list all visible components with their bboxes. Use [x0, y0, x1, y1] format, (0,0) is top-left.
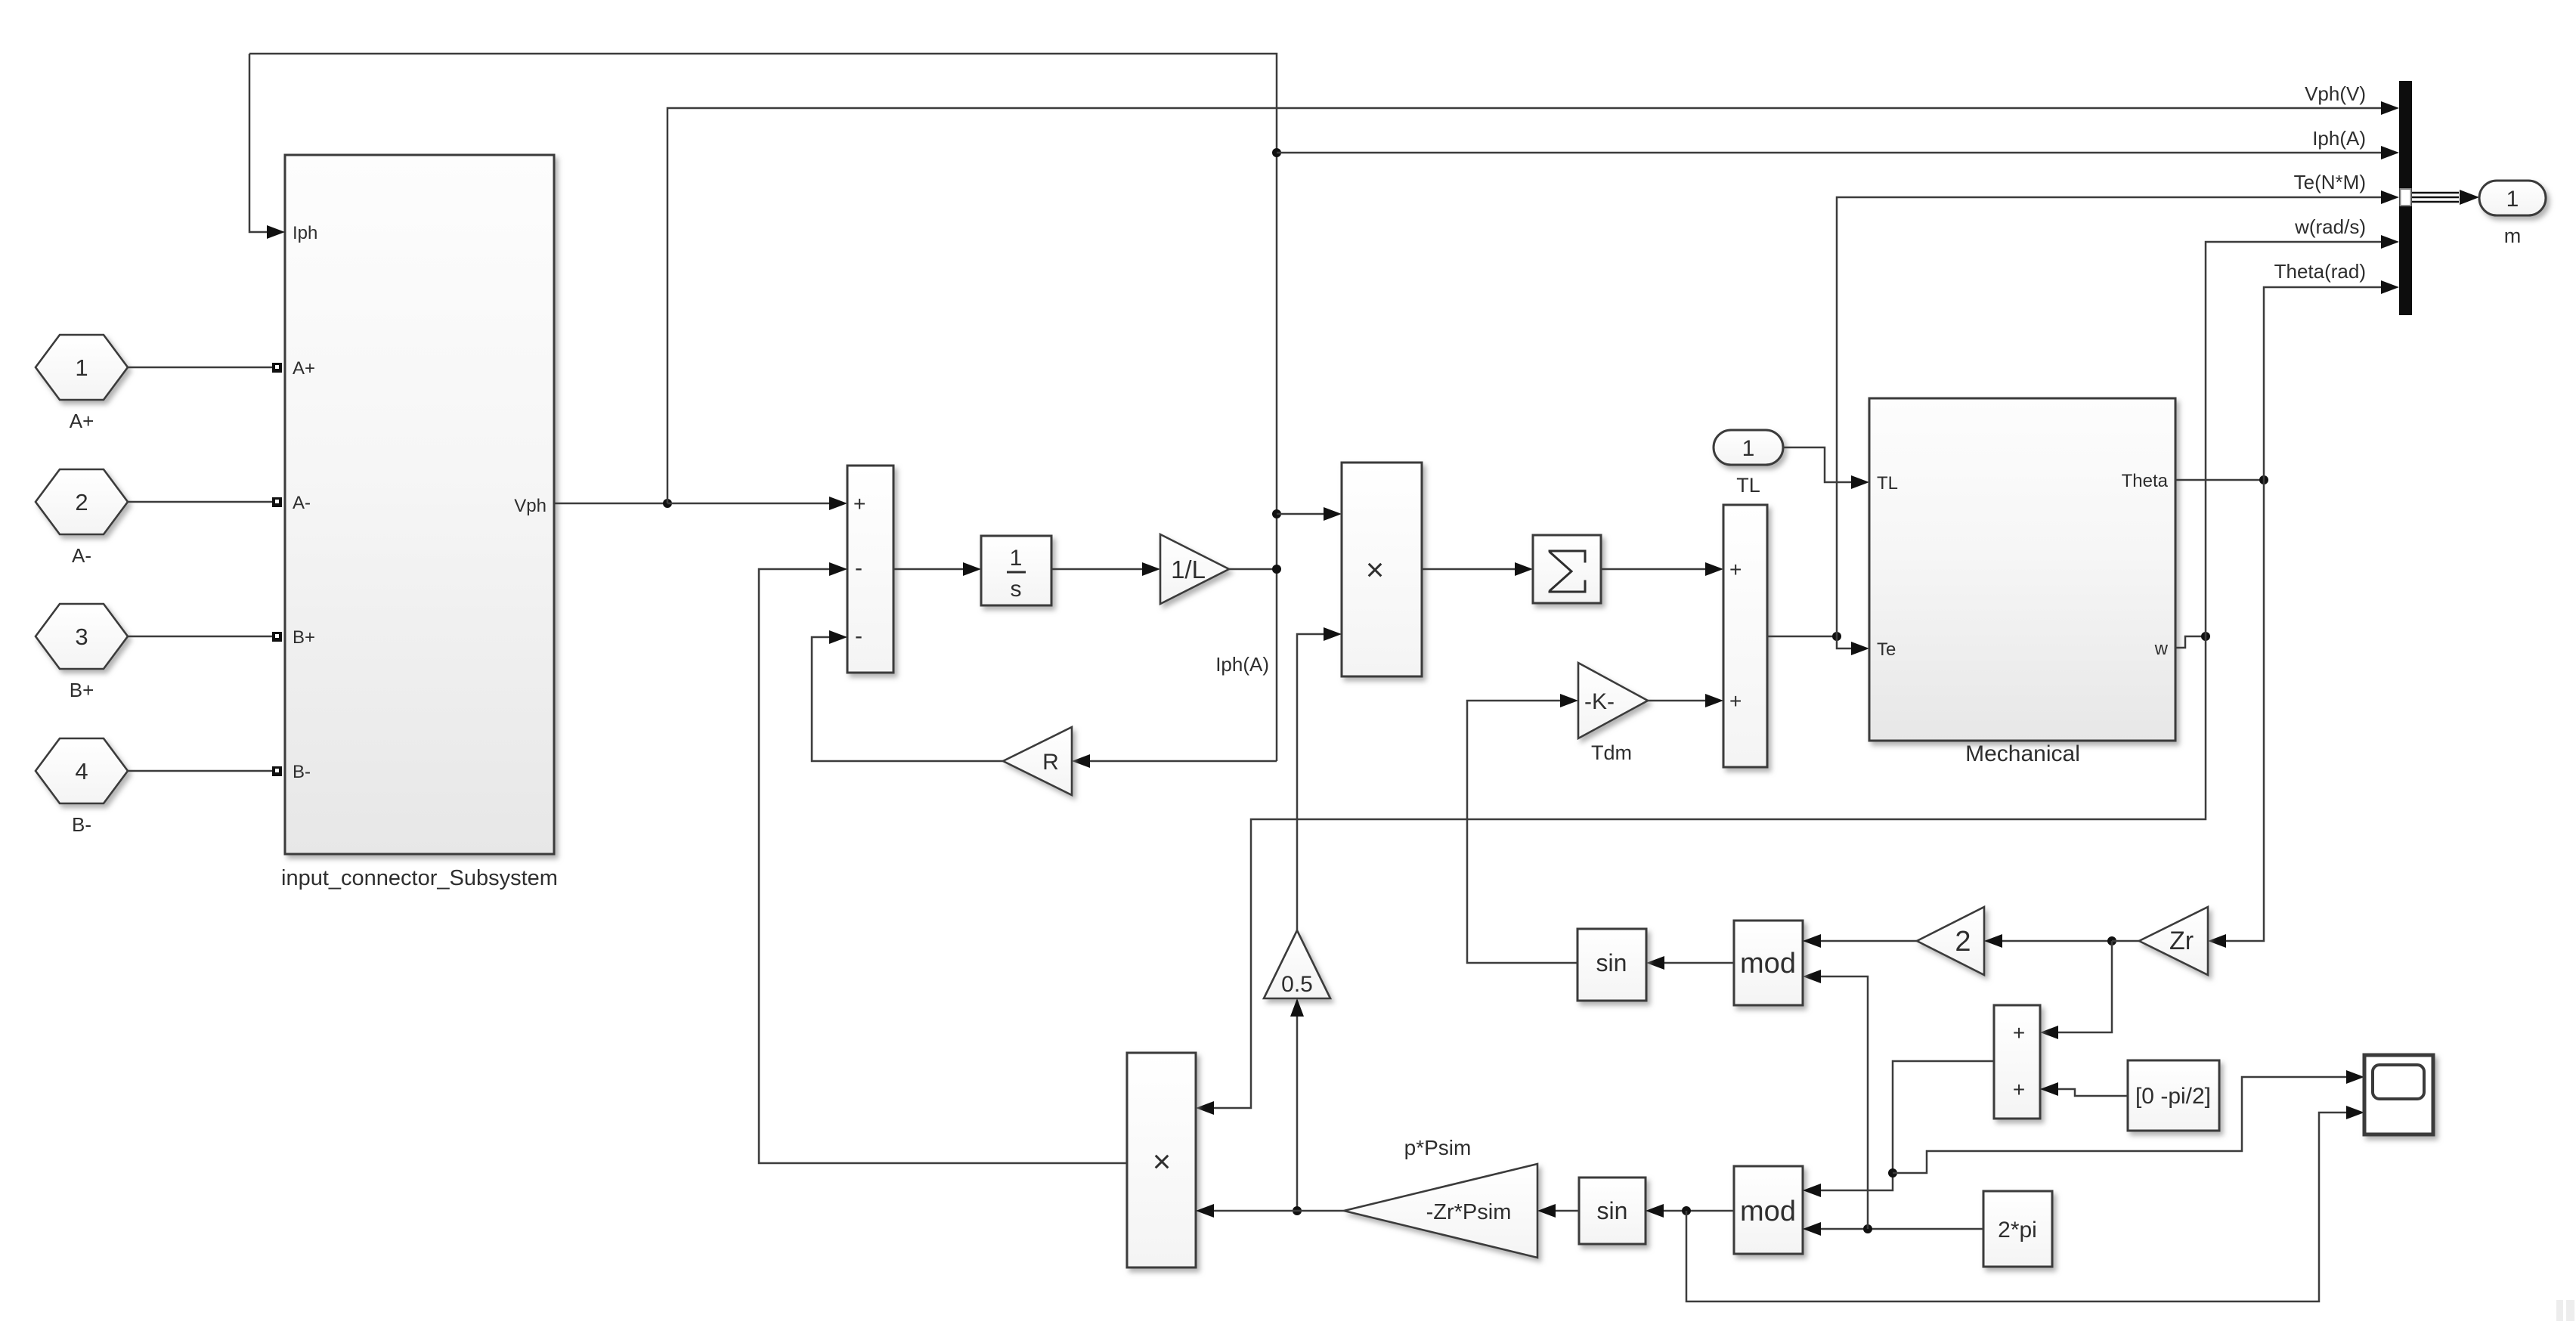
- svg-text:B+: B+: [70, 679, 94, 701]
- wire Product2 output to Sum1 minus input: [759, 569, 1127, 1163]
- node Iph(A) branch to mux: [1272, 148, 1281, 157]
- svg-text:Tdm: Tdm: [1591, 741, 1632, 764]
- wire Vph to sum1 + input: [667, 503, 829, 505]
- svg-text:w(rad/s): w(rad/s): [2294, 215, 2366, 238]
- wire into 0.5 gain from below: [1296, 1017, 1299, 1211]
- wire Iph feedback into subsystem: [249, 54, 268, 232]
- svg-text:Mechanical: Mechanical: [1965, 741, 2080, 766]
- gain 2 (left pointing): [1917, 907, 1984, 975]
- svg-text:input_connector_Subsystem: input_connector_Subsystem: [281, 866, 558, 890]
- constant 2*pi: [1983, 1191, 2052, 1267]
- port marker B-: [272, 766, 282, 776]
- wire Theta down to gain Zr: [2226, 480, 2264, 941]
- wire w down and left to Product2 input1: [1214, 636, 2206, 1108]
- svg-text:TL: TL: [1736, 474, 1760, 497]
- svg-text:+: +: [2013, 1021, 2025, 1044]
- sum block Sum1 (+ - -): [847, 466, 893, 673]
- gain -K- (Tdm): [1578, 663, 1648, 738]
- svg-text:R: R: [1042, 750, 1059, 775]
- node branch to product1 input1: [1272, 509, 1281, 518]
- wire branch to scope input1: [1893, 1077, 2346, 1173]
- svg-text:1: 1: [2506, 187, 2519, 212]
- product block Product2: [1127, 1053, 1196, 1267]
- svg-text:3: 3: [75, 624, 88, 650]
- wire Te up to mux Te(N*M): [1837, 197, 2382, 636]
- node sin2 input junction: [1682, 1206, 1691, 1215]
- node sum3 output branch: [1888, 1168, 1897, 1178]
- sum block Sigma: [1533, 535, 1601, 603]
- wire Te into Mechanical: [1837, 636, 1851, 648]
- svg-text:sin: sin: [1597, 1197, 1628, 1224]
- svg-text:0.5: 0.5: [1281, 972, 1313, 997]
- svg-text:-: -: [855, 624, 862, 648]
- wire 2*pi output to mod inputs: [1821, 1228, 1983, 1230]
- svg-text:+: +: [1729, 689, 1742, 713]
- node Zr output junction: [2107, 936, 2116, 945]
- inport 3 (B+) hexagon: [36, 604, 128, 669]
- subsystem input_connector_Subsystem: [285, 155, 554, 854]
- node 1/L output junction: [1272, 565, 1281, 574]
- gain Zr (left pointing): [2139, 907, 2208, 975]
- svg-text:A-: A-: [293, 493, 311, 513]
- svg-text:A+: A+: [293, 358, 315, 379]
- svg-text:w: w: [2154, 639, 2169, 659]
- mod block mod1: [1734, 921, 1803, 1005]
- wire gain R output to Sum1 minus input: [812, 637, 1003, 761]
- svg-text:1: 1: [75, 354, 88, 381]
- svg-text:-: -: [855, 555, 862, 580]
- gain 1/L: [1160, 534, 1229, 604]
- wire Zr junction to gain 2: [2002, 940, 2112, 942]
- wire integrator to gain 1/L: [1051, 568, 1142, 571]
- node Vph junction: [663, 499, 672, 508]
- svg-text:Iph: Iph: [293, 223, 317, 243]
- inport 1 (A+) hexagon: [36, 335, 128, 400]
- wire Product1 output to Sigma: [1422, 568, 1515, 571]
- svg-text:2: 2: [75, 489, 88, 515]
- sin block (top): [1577, 929, 1646, 1001]
- svg-text:-K-: -K-: [1584, 689, 1615, 714]
- svg-text:B-: B-: [293, 762, 311, 782]
- wire junction down to sum3 input1: [2058, 941, 2112, 1032]
- svg-text:+: +: [1729, 558, 1742, 581]
- wire mux output bus: [2412, 192, 2459, 194]
- watermark bars bottom-right: [2556, 1300, 2563, 1321]
- mux port marker: [2401, 189, 2411, 206]
- sum block Sum2 (+ +): [1723, 505, 1767, 767]
- wire w up to mux w(rad/s): [2206, 242, 2382, 636]
- wire TL to Mechanical: [1783, 447, 1851, 482]
- svg-text:[0 -pi/2]: [0 -pi/2]: [2135, 1084, 2211, 1109]
- wire sum3 output to mod2 input1 and scope: [1821, 1061, 1994, 1190]
- svg-text:×: ×: [1366, 552, 1385, 587]
- wire inport3 to B+ port: [128, 636, 273, 638]
- svg-text:Te: Te: [1877, 639, 1896, 660]
- wire Sum1 output to integrator: [893, 568, 963, 571]
- wire inport1 to A+ port: [128, 367, 273, 369]
- svg-text:Iph(A): Iph(A): [2312, 127, 2366, 150]
- svg-text:A+: A+: [70, 410, 94, 432]
- svg-text:1: 1: [1742, 436, 1755, 461]
- wire inport4 to B- port: [128, 770, 273, 772]
- wire feedback to gain R: [1090, 760, 1277, 763]
- svg-text:mod: mod: [1740, 948, 1796, 979]
- svg-text:×: ×: [1153, 1143, 1172, 1179]
- svg-text:+: +: [853, 492, 865, 515]
- integrator 1/s: [981, 536, 1051, 605]
- wire w output jog to junction: [2175, 636, 2206, 648]
- inport 2 (A-) hexagon: [36, 469, 128, 534]
- wire Iph feedback top run: [249, 54, 1277, 761]
- mux block: [2399, 81, 2412, 315]
- inport TL oval: [1714, 430, 1783, 465]
- svg-text:sin: sin: [1596, 949, 1627, 976]
- wire Theta output to junction: [2175, 479, 2264, 481]
- svg-text:4: 4: [75, 758, 88, 785]
- gain R (left pointing): [1003, 727, 1072, 795]
- wire -K- output to Sum2 + input: [1648, 700, 1705, 702]
- svg-text:1: 1: [1010, 546, 1023, 571]
- wire to product1 input1: [1277, 513, 1324, 515]
- wire 2*pi up to mod1 input2: [1821, 976, 1868, 1229]
- node w junction: [2201, 632, 2210, 641]
- wire Iph(A) to mux: [1277, 152, 2382, 154]
- outport 1 (m) oval: [2479, 181, 2546, 215]
- svg-text:Vph: Vph: [514, 496, 546, 516]
- svg-text:B+: B+: [293, 627, 315, 648]
- sin block (bottom): [1579, 1178, 1646, 1244]
- svg-text:+: +: [2013, 1078, 2025, 1101]
- wire sin2 output to -Zr*Psim: [1556, 1210, 1579, 1212]
- svg-text:1/L: 1/L: [1171, 555, 1206, 583]
- product block Product1: [1342, 463, 1422, 676]
- node Te junction: [1832, 632, 1841, 641]
- svg-text:2*pi: 2*pi: [1998, 1218, 2037, 1243]
- svg-text:s: s: [1011, 577, 1022, 602]
- node Theta junction: [2259, 475, 2268, 484]
- sum block Sum3 (+ +) flipped: [1994, 1005, 2040, 1119]
- svg-text:A-: A-: [72, 544, 91, 567]
- wire gain 2 output to mod1 input1: [1821, 940, 1917, 942]
- svg-text:m: m: [2504, 224, 2522, 247]
- port marker B+: [272, 632, 282, 642]
- gain -Zr*Psim (left pointing): [1344, 1164, 1537, 1258]
- wire sin1 output to gain -K- input: [1467, 701, 1577, 963]
- wire Vph output to junction: [554, 503, 667, 505]
- svg-text:2: 2: [1955, 926, 1971, 958]
- svg-text:Zr: Zr: [2169, 927, 2194, 955]
- svg-text:p*Psim: p*Psim: [1404, 1136, 1472, 1159]
- svg-text:TL: TL: [1877, 473, 1898, 494]
- wire Theta up to mux Theta(rad): [2264, 287, 2382, 480]
- constant [0 -pi/2]: [2128, 1060, 2219, 1131]
- port marker A+: [272, 363, 282, 373]
- inport 4 (B-) hexagon: [36, 738, 128, 803]
- svg-text:-Zr*Psim: -Zr*Psim: [1426, 1200, 1512, 1224]
- wire inport2 to A- port: [128, 501, 273, 503]
- svg-text:Theta: Theta: [2122, 471, 2169, 491]
- node 2*pi branch junction: [1863, 1224, 1872, 1233]
- wire [0 -pi/2] output to sum3 input2: [2058, 1089, 2128, 1096]
- gain 0.5 (pointing up): [1264, 930, 1330, 998]
- svg-text:Theta(rad): Theta(rad): [2274, 260, 2366, 283]
- wire Sum2 output to Te junction: [1767, 636, 1837, 638]
- wire 0.5 output up to Product1 input2: [1297, 634, 1324, 930]
- svg-text:mod: mod: [1740, 1196, 1796, 1227]
- node 0.5 branch junction: [1293, 1206, 1302, 1215]
- svg-text:Iph(A): Iph(A): [1215, 653, 1269, 676]
- svg-text:Te(N*M): Te(N*M): [2294, 171, 2366, 193]
- svg-text:B-: B-: [72, 813, 91, 836]
- wire gain -Zr*Psim output to Product2 input2: [1214, 1210, 1344, 1212]
- port marker A-: [272, 497, 282, 507]
- wire Vph up to mux Vph(V): [667, 108, 2382, 503]
- wire mod1 output to sin1: [1664, 962, 1734, 964]
- wire 1/L output to feedback node: [1229, 568, 1277, 571]
- wire Zr output to junction: [2112, 940, 2139, 942]
- subsystem Mechanical: [1869, 398, 2175, 741]
- mod block mod2: [1734, 1166, 1803, 1254]
- wire mod2 output to sin2: [1664, 1210, 1734, 1212]
- scope block: [2364, 1055, 2433, 1134]
- wire Sigma to Sum2 + input: [1601, 568, 1705, 571]
- wire junction down to scope input2: [1686, 1113, 2346, 1301]
- svg-text:Vph(V): Vph(V): [2305, 82, 2366, 105]
